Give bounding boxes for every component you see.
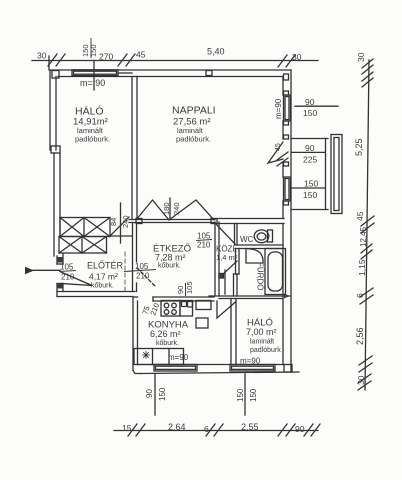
- furdo door D: [246, 249, 263, 264]
- closet top row: [60, 218, 110, 237]
- entry arrow: [25, 267, 34, 274]
- nappali bottom wall right part: [215, 218, 284, 220]
- svg-text:kőburk.: kőburk.: [158, 263, 181, 270]
- svg-text:1,4 m²: 1,4 m²: [216, 253, 238, 262]
- terrace inner edge: [325, 139, 327, 210]
- svg-text:30: 30: [356, 375, 366, 385]
- bottom dim ticks 15: [128, 424, 137, 436]
- right wall inner above window: [282, 77, 284, 96]
- svg-text:30: 30: [292, 52, 302, 62]
- terrace railing: [331, 135, 342, 214]
- etkezo 90/105 divider: [185, 283, 187, 296]
- svg-text:150: 150: [89, 44, 98, 57]
- svg-text:6,26 m²: 6,26 m²: [150, 329, 181, 339]
- svg-text:6: 6: [204, 424, 209, 434]
- svg-text:FÜRDŐ: FÜRDŐ: [256, 262, 265, 290]
- right dim ticks top 30: [362, 59, 373, 68]
- w2 fraction bar: [295, 105, 338, 107]
- svg-text:90: 90: [305, 143, 315, 153]
- toilet tank: [268, 230, 273, 242]
- svg-text:m= 90: m= 90: [80, 78, 105, 88]
- svg-text:45: 45: [275, 143, 282, 151]
- window W1 frame: [72, 70, 118, 76]
- top dim ticks right 30: [278, 55, 287, 67]
- kozl door leaf: [216, 224, 235, 244]
- svg-text:2,55: 2,55: [241, 422, 259, 432]
- bathtub: [265, 249, 286, 295]
- svg-text:padlóburk: padlóburk: [250, 347, 281, 354]
- svg-text:m=90: m=90: [168, 353, 189, 362]
- svg-text:150: 150: [303, 190, 317, 200]
- svg-text:84: 84: [109, 218, 118, 226]
- toilet bowl: [254, 230, 269, 243]
- svg-text:1,15: 1,15: [357, 259, 367, 276]
- bottom dim ticks 6: [206, 424, 215, 436]
- kitchen counter top row: stove: [161, 301, 180, 317]
- svg-text:45: 45: [355, 211, 365, 221]
- svg-text:210: 210: [136, 272, 150, 281]
- left wall mid outer: [53, 153, 55, 256]
- svg-text:2,64: 2,64: [168, 422, 186, 432]
- right wall inner lower: [282, 224, 284, 365]
- kozl door swing lines: [219, 261, 237, 278]
- dashed room divider eloter: [124, 252, 126, 292]
- terrace fraction bar door: [292, 151, 325, 153]
- right wall below terrace: [282, 201, 284, 218]
- terrace door 45 ticks: [277, 152, 288, 160]
- entry wall above door: [56, 256, 58, 264]
- window W2 top cap: [284, 91, 289, 95]
- terrace fraction bar window: [292, 187, 325, 189]
- terrace door opening jambs: [284, 162, 289, 166]
- top dim ticks 45: [118, 54, 127, 66]
- svg-text:150: 150: [303, 108, 317, 118]
- kitchen window center line: [154, 374, 156, 415]
- top wall outer line: [50, 69, 291, 71]
- svg-text:90: 90: [176, 286, 185, 294]
- folding door wall baseline: [129, 219, 215, 221]
- svg-text:6: 6: [355, 293, 365, 298]
- kitchen sink unit: [180, 301, 193, 317]
- closet bottom row: [59, 237, 107, 254]
- bottom-left corner step: [133, 371, 141, 374]
- entry door jamb blocks: [57, 257, 64, 263]
- window W2 frame: [284, 95, 291, 121]
- svg-text:270: 270: [99, 52, 113, 62]
- right wall between door and window3: [282, 162, 284, 177]
- svg-text:m=90: m=90: [274, 98, 283, 119]
- left corner extension line: [48, 56, 50, 70]
- wall etkezo/kozl: [214, 222, 216, 296]
- kitchen window: [154, 365, 197, 372]
- svg-text:150: 150: [236, 388, 245, 402]
- svg-text:90: 90: [145, 389, 154, 398]
- top-left wall cap: [52, 71, 59, 79]
- folding door triangles: [136, 200, 169, 220]
- svg-text:105: 105: [60, 263, 74, 272]
- svg-text:30: 30: [37, 51, 47, 61]
- svg-text:kőburk.: kőburk.: [156, 340, 179, 347]
- terrace door leaf: [268, 142, 283, 163]
- svg-text:5,40: 5,40: [207, 47, 225, 57]
- counter right section: [196, 301, 211, 310]
- window W3 (terrace window): [284, 177, 291, 201]
- window W1 sill extension: [118, 72, 132, 74]
- svg-text:12,45: 12,45: [359, 226, 368, 247]
- bottom wall inner line: [138, 364, 285, 366]
- svg-text:90: 90: [295, 424, 305, 434]
- svg-text:5,25: 5,25: [354, 138, 364, 156]
- right dim ticks 45: [361, 216, 374, 226]
- halo2 door triangle: [217, 301, 236, 318]
- svg-text:105: 105: [185, 281, 194, 294]
- right dim ticks 6: [360, 288, 373, 297]
- fridge: [196, 318, 208, 328]
- svg-text:30: 30: [356, 52, 366, 62]
- left wall cap at jog: [51, 146, 60, 153]
- svg-text:225: 225: [303, 155, 317, 165]
- top dim ticks left 30: [48, 54, 57, 66]
- top wall inner line: [58, 76, 283, 78]
- svg-text:7,28 m²: 7,28 m²: [155, 253, 186, 263]
- bottom dim ticks 90: [278, 424, 287, 436]
- right dim ticks mid: [361, 244, 372, 253]
- left wall upper inner: [55, 77, 57, 151]
- top wall section mark: [206, 71, 212, 76]
- right wall outer: [290, 70, 292, 372]
- bottom dimension line: [114, 430, 318, 432]
- svg-text:4,17 m²: 4,17 m²: [89, 272, 118, 282]
- closet leader: [111, 217, 129, 235]
- svg-text:150: 150: [249, 388, 258, 402]
- svg-text:90: 90: [305, 97, 315, 107]
- top dimension line: [32, 60, 318, 62]
- right dim ticks 2,56 end: [359, 356, 372, 365]
- folding door jamb right: [211, 219, 217, 224]
- svg-text:150: 150: [304, 179, 318, 189]
- entry wall below door: [56, 284, 58, 297]
- wall eloter/etkezo: [132, 223, 134, 292]
- right dimension line: [365, 60, 369, 390]
- konyha top wall: [133, 296, 138, 298]
- wall kozl/wc: [234, 224, 236, 246]
- entry door leaf: [61, 272, 92, 286]
- bottom wall outer line: [141, 372, 299, 374]
- svg-text:7,00 m²: 7,00 m²: [246, 327, 277, 337]
- svg-text:180: 180: [162, 202, 171, 215]
- bottom-right corner cap: [284, 365, 292, 373]
- svg-text:240: 240: [172, 202, 181, 215]
- svg-text:2,56: 2,56: [355, 327, 365, 345]
- svg-text:padlóburk.: padlóburk.: [75, 135, 110, 144]
- svg-text:210: 210: [148, 302, 161, 317]
- wall kozl/furdo: [235, 249, 237, 275]
- svg-text:laminált: laminált: [250, 339, 274, 346]
- svg-text:45: 45: [136, 50, 146, 60]
- left wall mid inner: [59, 153, 61, 237]
- terrace top edge: [291, 138, 328, 140]
- svg-text:WC: WC: [240, 235, 254, 244]
- terrace bottom edge: [291, 209, 328, 211]
- wall halo1/eloter thin: [110, 235, 132, 237]
- wall konyha/halo2: [230, 299, 232, 365]
- right dim ticks bottom 30: [358, 374, 371, 383]
- svg-text:15: 15: [122, 423, 132, 433]
- svg-text:240: 240: [121, 215, 130, 228]
- eloter/etkezo door dashed leaf: [137, 268, 156, 287]
- furdo lower-left wall: [233, 274, 235, 296]
- right wall cap top: [284, 74, 289, 80]
- svg-text:210: 210: [197, 241, 211, 250]
- bedroom2 window: [230, 365, 275, 372]
- svg-text:210: 210: [61, 273, 75, 282]
- svg-text:padlóburk.: padlóburk.: [176, 135, 211, 144]
- svg-text:NAPPALI: NAPPALI: [172, 105, 216, 117]
- left wall upper outer: [49, 70, 51, 150]
- svg-text:ELŐTÉR: ELŐTÉR: [87, 261, 124, 271]
- svg-text:m=90: m=90: [240, 357, 261, 366]
- bedroom2 window center line: [244, 374, 246, 415]
- svg-text:kőburk.: kőburk.: [91, 283, 114, 290]
- right wall between window and terrace door: [282, 121, 284, 139]
- svg-text:105: 105: [197, 232, 211, 241]
- svg-text:150: 150: [158, 387, 167, 401]
- kitchen bottom counter: [134, 349, 184, 365]
- lower block left wall: [132, 298, 134, 371]
- washing machine symbol: [143, 352, 150, 359]
- wall halo1/nappali: [131, 77, 133, 220]
- folding door jamb left: [136, 219, 142, 224]
- window1 center extension line: [93, 61, 95, 91]
- elotere bottom wall: [57, 291, 135, 293]
- wall kozl+furdo / halo2 with arrow: [209, 295, 290, 297]
- wall wc/furdo: [235, 244, 283, 246]
